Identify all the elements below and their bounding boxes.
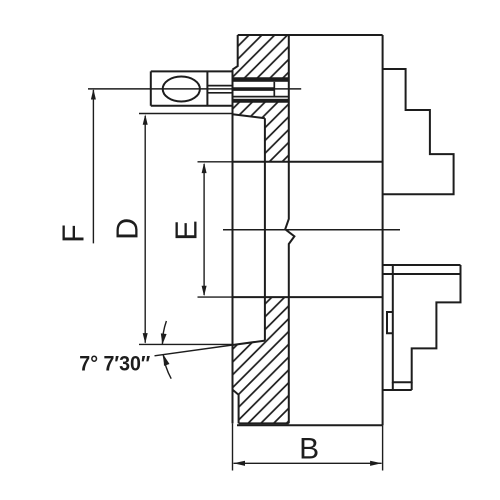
bottom jaw left tab xyxy=(387,312,393,333)
body bottom line xyxy=(237,424,383,426)
pinion shaft bottom line xyxy=(207,92,232,94)
body top line xyxy=(238,34,383,36)
svg-text:E: E xyxy=(170,220,204,240)
E arrow up xyxy=(202,163,207,174)
front face xyxy=(232,70,234,424)
angle arc upper branch xyxy=(162,321,166,345)
bottom front block bottom edge xyxy=(239,422,289,424)
taper angle extension diagonal xyxy=(155,345,233,356)
B dimension line xyxy=(234,462,382,464)
plate joint line with S-break xyxy=(285,35,294,423)
bore line inner xyxy=(264,118,266,340)
B arrow left xyxy=(233,461,245,466)
screw axis line / F extension xyxy=(88,88,301,90)
top block left edge with chamfer xyxy=(233,35,238,70)
svg-text:7° 7′30″: 7° 7′30″ xyxy=(79,352,150,375)
pinion shaft top line xyxy=(207,85,232,87)
E dimension line xyxy=(203,164,205,295)
D dimension line xyxy=(144,116,146,343)
B right extension line xyxy=(382,425,384,470)
hatched lower column and bottom block xyxy=(233,297,289,423)
bottom front block chamfer xyxy=(233,390,239,424)
hatched mid block above top taper xyxy=(233,102,289,162)
chuck key body rectangle xyxy=(151,71,233,105)
bottom jaw slide rail xyxy=(383,265,461,274)
pinion bore bottom thin line xyxy=(233,96,289,98)
E bottom extension line xyxy=(198,296,233,298)
angle arc lower branch xyxy=(163,355,171,379)
pinion lower flat line xyxy=(233,89,275,91)
pinion upper flat line xyxy=(233,87,275,89)
F dimension line xyxy=(92,90,94,243)
pinion thick band upper xyxy=(233,78,289,82)
D top extension line xyxy=(139,113,233,115)
bottom jaw foot xyxy=(383,382,412,390)
E arrow down xyxy=(202,286,207,297)
centerline xyxy=(223,229,400,231)
svg-text:B: B xyxy=(299,433,319,466)
recess top line xyxy=(233,161,383,163)
B left extension line xyxy=(232,423,234,470)
chuck key ellipse xyxy=(163,77,200,102)
recess bottom line xyxy=(233,296,383,298)
E top extension line xyxy=(198,161,233,163)
D arrow up xyxy=(143,114,148,125)
pinion thick band lower xyxy=(233,99,289,102)
D arrow down xyxy=(143,333,148,344)
lower band bottom edge line xyxy=(233,101,289,103)
svg-text:D: D xyxy=(110,218,144,240)
top taper edge xyxy=(233,114,265,118)
angle arrow lower (points up to diagonal) xyxy=(163,355,169,366)
angle arrow upper (points down to horizontal line) xyxy=(161,333,167,344)
svg-text:F: F xyxy=(56,224,90,243)
D bottom extension line xyxy=(139,343,233,345)
B arrow right xyxy=(370,461,382,466)
hatched top front plate block xyxy=(233,35,289,78)
bottom jaw stepped outline xyxy=(393,265,461,382)
F arrow up xyxy=(91,89,96,100)
top jaw stepped outline xyxy=(383,69,454,194)
bottom taper edge xyxy=(233,341,265,345)
pinion gear face vertical xyxy=(273,82,275,97)
top band upper edge line xyxy=(233,77,289,79)
body right edge xyxy=(382,35,384,425)
